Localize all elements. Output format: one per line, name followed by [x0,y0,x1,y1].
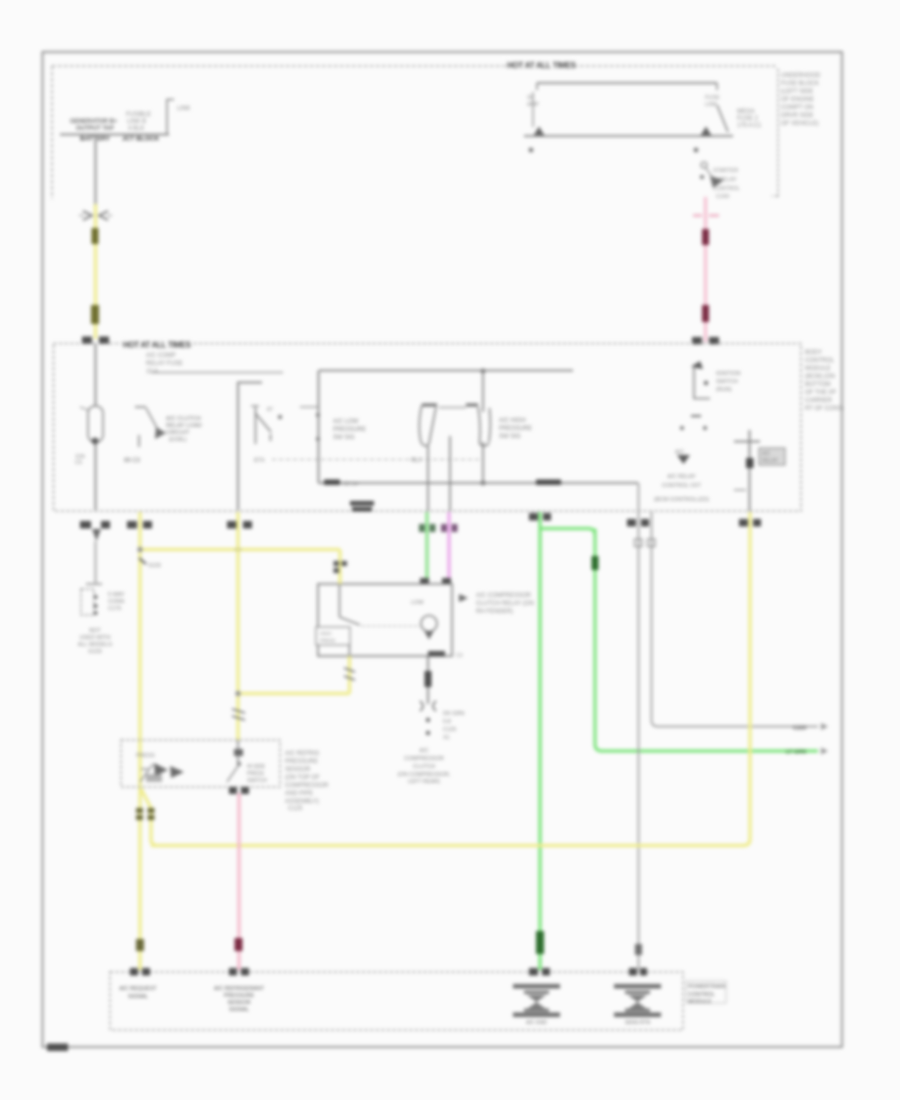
connector break pink [235,938,243,951]
svg-text:PRESS: PRESS [247,771,265,777]
contact loop right [466,404,478,407]
connector marks yellow pair left [136,808,143,813]
svg-text:SW SIG: SW SIG [499,434,521,440]
svg-text:C5: C5 [75,460,82,466]
svg-text:A/C REQUEST: A/C REQUEST [119,986,157,992]
svg-text:G103: G103 [88,649,101,655]
svg-text:A/C CLUTCH: A/C CLUTCH [166,416,201,422]
wire inside from terminal to fuse [95,344,97,406]
svg-text:BOTTOM: BOTTOM [805,382,831,388]
terminal x750 bottom [739,519,748,527]
svg-text:X1: X1 [443,735,450,741]
wire green long [538,512,541,970]
contact loop left [422,404,437,407]
wire fuse to bottom edge [95,444,97,510]
svg-text:RELAY FUSE: RELAY FUSE [146,361,183,367]
svg-text:A/C REFRIGERANT: A/C REFRIGERANT [214,986,265,992]
svg-text:A/C RELAY: A/C RELAY [667,474,696,480]
svg-text:30: 30 [527,95,533,101]
relay ignition symbol [701,162,707,168]
linkage dashed [272,459,480,461]
svg-text:BODY: BODY [805,350,822,356]
wire pink ignition feed [704,197,707,342]
svg-text:(COIL): (COIL) [169,437,186,443]
wire yellow x750 down [743,512,750,846]
node HOT AT ALL TIMES label [506,60,576,69]
relay coil right [749,430,751,511]
svg-text:OF THE I/P: OF THE I/P [805,390,836,396]
svg-text:A/C: A/C [675,450,684,456]
label fuse amps [527,95,539,108]
node battery label [70,119,118,132]
svg-text:STARTER: STARTER [713,168,738,174]
svg-text:RELAY LOAD: RELAY LOAD [166,423,202,429]
terminal x238 bottom [227,521,237,529]
svg-text:CARRIER: CARRIER [805,398,833,404]
terminal triangle right [701,127,712,136]
terminal ticks green [419,524,425,532]
svg-text:C125: C125 [288,806,303,812]
svg-text:(BCM CONTROLLED): (BCM CONTROLLED) [654,497,709,503]
wire battery feed down (gray) [95,140,97,204]
wire yellow x238 [236,512,239,740]
fuse bottom rail [524,135,733,137]
svg-text:RELAY: RELAY [762,458,779,464]
wire label 0.8 BLK [425,671,432,687]
wire yellow horizontal to x238 [238,692,350,695]
bottom module box dashed [110,972,683,1030]
svg-text:87: 87 [267,407,273,413]
label A/C fuse text [146,353,183,375]
terminal x95 bottom [80,521,91,529]
svg-text:OF VEHICLE): OF VEHICLE) [781,121,819,127]
svg-text:PRESSURE: PRESSURE [224,993,255,999]
relay box A/C compressor clutch relay [318,584,452,656]
svg-text:(ON TOP OF: (ON TOP OF [285,775,320,781]
svg-text:COMPT ON: COMPT ON [781,105,813,111]
terminal pink under box [229,787,237,794]
wire fusible link riser [167,100,174,135]
svg-text:HIGH: HIGH [320,631,331,636]
svg-text:POWERTRAIN: POWERTRAIN [688,984,725,990]
svg-text:C2 14: C2 14 [343,482,358,488]
svg-text:4 BLK: 4 BLK [128,126,144,132]
connector break gray [635,944,642,955]
svg-text:A/C: A/C [762,451,771,457]
svg-text:C240: C240 [716,194,729,200]
fuse F10A body [88,406,103,442]
svg-text:SW SIG: SW SIG [333,435,355,441]
label C1 BLK [350,501,374,506]
label 2 RED [702,229,709,245]
svg-text:A/C: A/C [419,748,428,754]
terminal at fuse block [82,337,92,345]
svg-text:UNDERHOOD: UNDERHOOD [781,73,821,79]
wire common drop [482,371,484,412]
svg-text:COMPRESSOR: COMPRESSOR [404,756,444,762]
svg-text:LOW: LOW [411,600,424,606]
wire right feed drop [772,69,778,196]
svg-text:HOT AT ALL TIMES: HOT AT ALL TIMES [123,341,192,350]
fuse left leg [536,83,538,90]
switch ignition symbol [691,361,703,369]
label 2 RED lower [702,305,709,322]
label compressor clutch [398,748,451,785]
svg-text:OF ENGINE: OF ENGINE [781,97,814,103]
svg-text:USED WITH: USED WITH [80,635,111,641]
connector break x238 [232,709,245,720]
svg-text:FUSE BLOCK: FUSE BLOCK [781,81,819,87]
label relay control [654,474,709,503]
svg-text:A/C COMP: A/C COMP [146,353,176,359]
svg-text:IGNITION: IGNITION [716,371,740,377]
fuse right leg [716,83,718,90]
svg-text:FUSIBLE: FUSIBLE [126,112,151,118]
svg-text:PRESSURE: PRESSURE [285,759,318,765]
svg-text:175 A C1: 175 A C1 [737,123,762,129]
svg-text:87A: 87A [254,458,265,464]
svg-text:OUTPUT TAP: OUTPUT TAP [76,126,114,132]
label pressure switch right [285,751,329,812]
node junction top [481,369,486,374]
pin labels bottom rail [324,480,340,486]
svg-text:LINK: LINK [705,102,718,108]
wire yellow relay out [348,656,351,694]
svg-text:HOT AT ALL TIMES: HOT AT ALL TIMES [507,61,577,70]
module box dashed (fuse block middle) [54,344,802,512]
svg-text:5 WAY: 5 WAY [108,592,125,598]
connector pink ticks [693,214,719,216]
svg-text:86 C3: 86 C3 [124,458,141,464]
svg-text:A/C HIGH: A/C HIGH [499,418,526,424]
wire gray x638 long [638,483,640,970]
label A/C request [119,986,157,1000]
svg-text:A/C LOW: A/C LOW [333,419,359,425]
svg-text:LINK: LINK [177,106,190,112]
page corner mark [47,1044,68,1052]
terminal ticks magenta [441,524,447,532]
svg-text:AMP: AMP [527,102,539,108]
bus: HOT AT ALL TIMES dotted rail top [52,65,777,67]
terminal triangle left [534,127,545,136]
svg-text:PRESS: PRESS [136,753,155,759]
svg-text:SENS RTN: SENS RTN [625,1020,651,1026]
connector marks yellow pair right [148,808,155,813]
svg-text:LINK B: LINK B [127,119,146,125]
label BCM right [805,350,844,412]
wire green short [425,512,428,584]
svg-text:CONTROL: CONTROL [688,992,715,998]
svg-text:NOT: NOT [89,628,101,634]
wire NO drop magenta feed [449,436,451,511]
svg-text:C125: C125 [443,727,456,733]
wire yellow feed down to fuse block [94,204,97,339]
svg-text:GENERATOR B+: GENERATOR B+ [70,119,118,125]
svg-text:LEFT REAR): LEFT REAR) [408,779,440,785]
svg-text:CLUTCH: CLUTCH [413,764,435,770]
terminal marks at relay box entry [420,578,429,585]
svg-text:0.8: 0.8 [443,719,451,725]
wire yellow branch from pressure switch [141,789,157,846]
svg-text:SIGNAL: SIGNAL [128,994,148,1000]
svg-text:MEGA: MEGA [737,109,755,115]
connector C100 inline [83,211,108,220]
svg-text:MODULE: MODULE [805,366,831,372]
node splice dot 2 [235,547,240,552]
label 2 YEL [92,228,99,244]
svg-text:ALL MODELS: ALL MODELS [78,642,113,648]
label 2 YEL lower [91,305,99,324]
svg-text:S103: S103 [148,563,161,569]
svg-text:CONN: CONN [108,599,124,605]
terminal marks bottom box [130,968,138,976]
svg-text:CONTROL CKT: CONTROL CKT [662,483,702,489]
svg-text:MODULE: MODULE [688,999,712,1005]
svg-text:JCT BLOCK: JCT BLOCK [122,136,160,143]
svg-text:ASSEMBLY): ASSEMBLY) [285,799,319,805]
svg-text:PRESS: PRESS [320,638,335,643]
label mega fuse [737,109,762,129]
svg-text:A/C GND: A/C GND [526,1020,547,1026]
svg-text:SWITCH: SWITCH [247,778,267,784]
svg-text:CIRCUIT: CIRCUIT [166,430,190,436]
wire pink down [237,793,240,970]
svg-text:HI SIDE: HI SIDE [247,764,266,770]
relay internals [339,584,341,617]
relay R2 contact [255,407,257,444]
terminal x140 bottom [127,521,137,529]
svg-text:(BCM) (ON: (BCM) (ON [805,374,835,380]
node HOT AT ALL TIMES label 2 [122,339,192,348]
wire yellow x140 long [138,512,141,970]
contact marks [691,415,701,417]
wire gray to connector [95,541,97,583]
svg-text:FUSE: FUSE [705,95,720,101]
wire yellow branch horizontal [140,548,340,551]
svg-text:AND PIPE: AND PIPE [285,791,313,797]
wire drop x238 [238,383,262,511]
relay R1 contact [135,406,146,408]
wire green right drop [595,529,602,752]
svg-text:(ON COMPRESSOR,: (ON COMPRESSOR, [398,772,451,778]
connector block left [86,583,102,585]
label DK GRN [592,556,599,570]
svg-text:C220: C220 [793,726,806,732]
svg-text:RLY: RLY [411,458,422,464]
svg-text:PRESSURE: PRESSURE [499,426,532,432]
connector square [635,539,643,547]
connector break green [536,931,544,954]
svg-text:A/C COMPRESSOR: A/C COMPRESSOR [476,593,532,599]
node dot right [694,148,699,153]
label relay right [459,594,468,602]
svg-text:C175: C175 [108,606,121,612]
wire magenta short [447,512,450,584]
wire fuse label underline [151,372,283,374]
label right pressure [499,418,532,440]
svg-text:SIGNAL: SIGNAL [229,1007,249,1013]
svg-text:RH FENDER): RH FENDER) [476,609,513,615]
terminal at BCM box [692,337,702,345]
label PCM flag [686,981,726,1003]
node dot left [529,148,534,153]
pressure switch box dashed [121,740,280,787]
label left pressure [333,419,366,441]
svg-text:A/C REFRIG: A/C REFRIG [285,751,320,757]
wire gray clutch feed [427,656,429,704]
svg-text:CONTROL: CONTROL [713,186,740,192]
svg-text:SENSOR: SENSOR [285,767,311,773]
wire green to arrow [601,749,818,752]
svg-text:COMPRESSOR: COMPRESSOR [285,783,329,789]
wire yellow entry [338,550,341,585]
svg-text:CONTROL: CONTROL [805,358,835,364]
svg-text:SENSOR: SENSOR [227,1000,250,1006]
wire yellow long horizontal [151,844,744,847]
node splice dot [137,547,142,552]
svg-text:RELAY: RELAY [719,177,737,183]
svg-text:C3: C3 [456,653,463,659]
fuse element top rail [537,82,717,84]
fusible element diagonal [717,105,728,132]
svg-text:DK GRN: DK GRN [443,711,464,717]
pin label at box exit [428,651,445,657]
wire gray x651 [652,512,819,727]
contact bridge [439,407,466,409]
battery feed bus bar [60,134,169,136]
svg-text:FUSE 2: FUSE 2 [737,116,759,122]
node dot fuse bottom [92,438,99,445]
svg-text:RT OF CONS): RT OF CONS) [805,406,844,412]
wire dotted left drop [51,66,53,199]
wire green branch [540,529,595,536]
pin stub left [300,406,318,408]
svg-text:CLUTCH RELAY (ON: CLUTCH RELAY (ON [476,601,534,607]
ground symbol 1 [513,984,560,1026]
fusible link label [126,112,151,132]
svg-text:PRESSURE: PRESSURE [333,427,366,433]
svg-text:(RUN): (RUN) [716,387,732,393]
connector chevrons [420,701,436,711]
relay box inner rails [319,370,573,372]
node underhood fuse block label [781,73,821,127]
terminal x638 bottom [627,519,636,527]
connector square 2 [648,539,656,547]
wire NC drop green feed [427,446,429,511]
svg-text:DRVR SIDE: DRVR SIDE [781,113,814,119]
splice tag S103 [139,558,146,564]
svg-text:LT GRN: LT GRN [786,750,806,756]
connector break yellow [136,939,144,951]
terminal x540 bottom [529,513,538,521]
label 10A [75,454,85,466]
ground symbol 2 [614,984,661,1026]
svg-text:SWITCH: SWITCH [716,379,738,385]
ground G103 label [78,628,113,655]
svg-text:(LEFT SIDE: (LEFT SIDE [781,89,813,95]
label refrigerant sensor [214,986,265,1013]
